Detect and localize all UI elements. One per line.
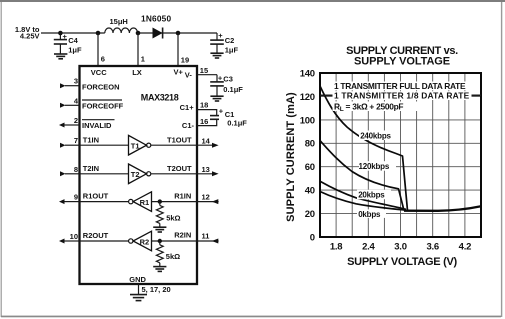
receiver R1 — [129, 192, 152, 212]
junction dot R1 — [158, 199, 162, 203]
svg-text:MAX3218: MAX3218 — [141, 93, 179, 103]
svg-text:T2: T2 — [131, 170, 140, 179]
svg-text:5kΩ: 5kΩ — [166, 252, 180, 261]
svg-text:+: + — [63, 32, 68, 41]
svg-text:240kbps: 240kbps — [360, 132, 391, 141]
pin 4 wire — [65, 104, 80, 106]
svg-text:FORCEON: FORCEON — [82, 83, 120, 92]
svg-text:GND: GND — [129, 275, 146, 284]
svg-text:R1IN: R1IN — [174, 191, 191, 200]
curve 120kbps — [320, 141, 404, 211]
grid vertical lines — [336, 73, 465, 237]
pin 2 wire — [65, 124, 80, 126]
svg-text:60: 60 — [305, 162, 315, 173]
pin 14 arrow output — [212, 143, 219, 148]
svg-text:C1+: C1+ — [180, 103, 195, 112]
capacitor C2 — [210, 31, 238, 55]
svg-text:0.1μF: 0.1μF — [227, 119, 247, 128]
wire main supply rail — [41, 32, 105, 34]
svg-text:VCC: VCC — [91, 68, 107, 77]
svg-text:R1OUT: R1OUT — [83, 192, 109, 201]
svg-text:V-: V- — [185, 70, 193, 79]
svg-text:2.4: 2.4 — [362, 242, 375, 253]
resistor R1 pullup 5k — [156, 202, 180, 227]
y axis labels — [300, 68, 315, 243]
svg-text:9: 9 — [74, 193, 78, 202]
svg-text:120: 120 — [300, 92, 315, 103]
svg-text:R2OUT: R2OUT — [83, 231, 109, 240]
svg-text:1: 1 — [141, 55, 145, 64]
pin 8 wire — [65, 173, 80, 175]
junction dot V+ tap — [176, 31, 181, 36]
svg-text:15μH: 15μH — [110, 17, 128, 26]
svg-text:4.2: 4.2 — [459, 242, 471, 253]
svg-text:T2OUT: T2OUT — [167, 164, 192, 173]
svg-text:+: + — [218, 31, 223, 40]
ground below R1 resistor — [153, 227, 166, 232]
receiver R2 — [129, 231, 152, 251]
pin 12 arrow input — [212, 199, 219, 204]
svg-text:3.6: 3.6 — [426, 242, 438, 253]
ground symbol main — [130, 295, 147, 301]
svg-text:+: + — [218, 74, 223, 83]
wire T1 input — [80, 144, 129, 146]
wire pin19 stub — [177, 33, 179, 66]
svg-text:100: 100 — [300, 115, 315, 126]
svg-text:12: 12 — [202, 192, 210, 201]
curve label 120kbps — [359, 161, 397, 171]
junction dot C4 tap — [58, 31, 63, 36]
svg-text:INVALID: INVALID — [82, 121, 112, 130]
svg-text:14: 14 — [202, 136, 211, 145]
pin 3 wire — [65, 85, 80, 87]
curve 0kbps — [320, 192, 404, 210]
capacitor C1 — [210, 107, 247, 128]
svg-text:10: 10 — [70, 232, 78, 241]
svg-text:80: 80 — [305, 139, 315, 150]
diode D1 1N6050 — [141, 14, 171, 39]
pin 18 wire — [197, 110, 217, 116]
node VIN label 1.8V to 4.25V — [15, 25, 40, 41]
svg-text:C1-: C1- — [182, 121, 195, 130]
pin 10 wire — [65, 240, 80, 242]
svg-text:3: 3 — [74, 77, 78, 86]
curve converged flat tail — [404, 206, 481, 211]
svg-text:R2IN: R2IN — [174, 231, 191, 240]
axis frame — [320, 73, 481, 237]
svg-text:120kbps: 120kbps — [359, 162, 390, 171]
svg-text:1N6050: 1N6050 — [141, 14, 171, 24]
ground below R2 resistor — [153, 267, 166, 272]
pin 7 arrow input — [60, 143, 66, 148]
svg-text:11: 11 — [202, 232, 210, 241]
resistor R2 pullup 5k — [156, 241, 180, 266]
wire R1 output side — [80, 201, 129, 203]
pin 8 arrow input — [60, 171, 66, 176]
junction dot R2 — [158, 239, 162, 243]
legend row 2 with leader dashes — [320, 91, 481, 101]
svg-text:T1OUT: T1OUT — [167, 135, 192, 144]
svg-text:R1: R1 — [140, 198, 150, 207]
x axis labels — [330, 242, 471, 253]
pin 4 arrow input — [60, 103, 66, 108]
pin 2 arrow output — [59, 123, 65, 128]
pin 9 arrow output — [59, 199, 65, 204]
svg-text:0kbps: 0kbps — [358, 210, 381, 219]
svg-text:4.25V: 4.25V — [20, 31, 40, 40]
curve label 20kbps — [357, 190, 391, 200]
svg-text:SUPPLY VOLTAGE (V): SUPPLY VOLTAGE (V) — [347, 256, 457, 268]
svg-text:1 TRANSMITTER 1/8 DATA RATE: 1 TRANSMITTER 1/8 DATA RATE — [334, 91, 470, 101]
svg-text:20kbps: 20kbps — [358, 191, 385, 200]
pin 15 wire — [197, 74, 217, 76]
legend row 1 — [333, 81, 480, 91]
GND stub wire — [138, 284, 140, 294]
svg-text:FORCEOFF: FORCEOFF — [82, 101, 124, 110]
svg-text:7: 7 — [74, 136, 78, 145]
pin 13 arrow output — [212, 171, 219, 176]
svg-text:T1IN: T1IN — [83, 135, 99, 144]
svg-text:C4: C4 — [68, 36, 78, 45]
svg-text:6: 6 — [101, 55, 105, 64]
junction dot VCC tap — [96, 31, 101, 36]
grid horizontal lines — [320, 96, 481, 213]
wire T2 input — [80, 173, 129, 175]
svg-text:V+: V+ — [174, 67, 184, 76]
svg-text:5, 17, 20: 5, 17, 20 — [142, 285, 171, 294]
curve 20kbps — [320, 181, 406, 209]
svg-text:140: 140 — [300, 68, 315, 79]
transmitter T1 — [129, 135, 151, 155]
svg-text:R2: R2 — [140, 237, 150, 246]
inductor L1 15uH — [105, 17, 138, 33]
wire diode-side rail — [138, 32, 217, 34]
wire T1 output — [151, 144, 212, 146]
ground below C4 — [54, 54, 67, 59]
svg-text:19: 19 — [181, 56, 189, 65]
svg-text:LX: LX — [132, 68, 142, 77]
svg-text:18: 18 — [200, 100, 208, 109]
svg-text:C3: C3 — [223, 75, 233, 84]
svg-text:0: 0 — [310, 232, 315, 243]
capacitor C4 — [54, 32, 82, 55]
capacitor C3 — [210, 74, 243, 96]
wire R2 output side — [80, 240, 129, 242]
wire pin6 stub — [97, 33, 99, 66]
curve label 0kbps — [357, 209, 386, 219]
transmitter T2 — [129, 164, 151, 184]
wire pin1 stub — [137, 33, 139, 66]
op-amp U1 MAX3218 box — [80, 66, 198, 284]
svg-text:1μF: 1μF — [68, 46, 82, 55]
pin 10 arrow output — [59, 239, 65, 244]
svg-text:2: 2 — [74, 116, 78, 125]
svg-text:15: 15 — [200, 66, 208, 75]
pin 11 arrow input — [212, 239, 219, 244]
svg-text:C2: C2 — [225, 36, 235, 45]
wire R2 input side — [152, 240, 219, 242]
svg-text:SUPPLY VOLTAGE: SUPPLY VOLTAGE — [354, 56, 450, 68]
svg-text:13: 13 — [202, 165, 210, 174]
wire R1 input side — [152, 201, 219, 203]
curve 240kbps full-rate — [320, 86, 408, 211]
svg-text:8: 8 — [74, 165, 78, 174]
pin 3 arrow input — [60, 83, 66, 88]
svg-text:T1: T1 — [131, 142, 140, 151]
svg-text:3.0: 3.0 — [394, 242, 406, 253]
svg-text:5kΩ: 5kΩ — [166, 214, 180, 223]
svg-text:1μF: 1μF — [225, 46, 239, 55]
svg-text:RL = 3kΩ + 2500pF: RL = 3kΩ + 2500pF — [334, 101, 403, 113]
svg-text:T2IN: T2IN — [83, 164, 99, 173]
svg-text:1 TRANSMITTER FULL DATA RATE: 1 TRANSMITTER FULL DATA RATE — [334, 81, 466, 91]
pin 16 wire — [197, 119, 217, 125]
junction dot LX tap — [136, 31, 141, 36]
frame borders — [0, 0, 505, 2]
legend row 3 RL = 3k + 2500pF — [333, 101, 421, 113]
svg-text:1.8: 1.8 — [330, 242, 342, 253]
svg-text:0.1μF: 0.1μF — [223, 85, 243, 94]
ground below C3 — [210, 96, 223, 101]
svg-text:20: 20 — [305, 209, 315, 220]
svg-text:SUPPLY CURRENT (mA): SUPPLY CURRENT (mA) — [285, 92, 297, 222]
pin 7 wire — [65, 144, 80, 146]
wire T2 output — [151, 173, 212, 175]
pin 9 wire — [65, 201, 80, 203]
svg-text:16: 16 — [200, 117, 208, 126]
svg-text:+: + — [219, 107, 224, 116]
svg-text:40: 40 — [305, 186, 315, 197]
curve label 240kbps — [359, 131, 396, 141]
ground below C2 — [210, 53, 223, 58]
